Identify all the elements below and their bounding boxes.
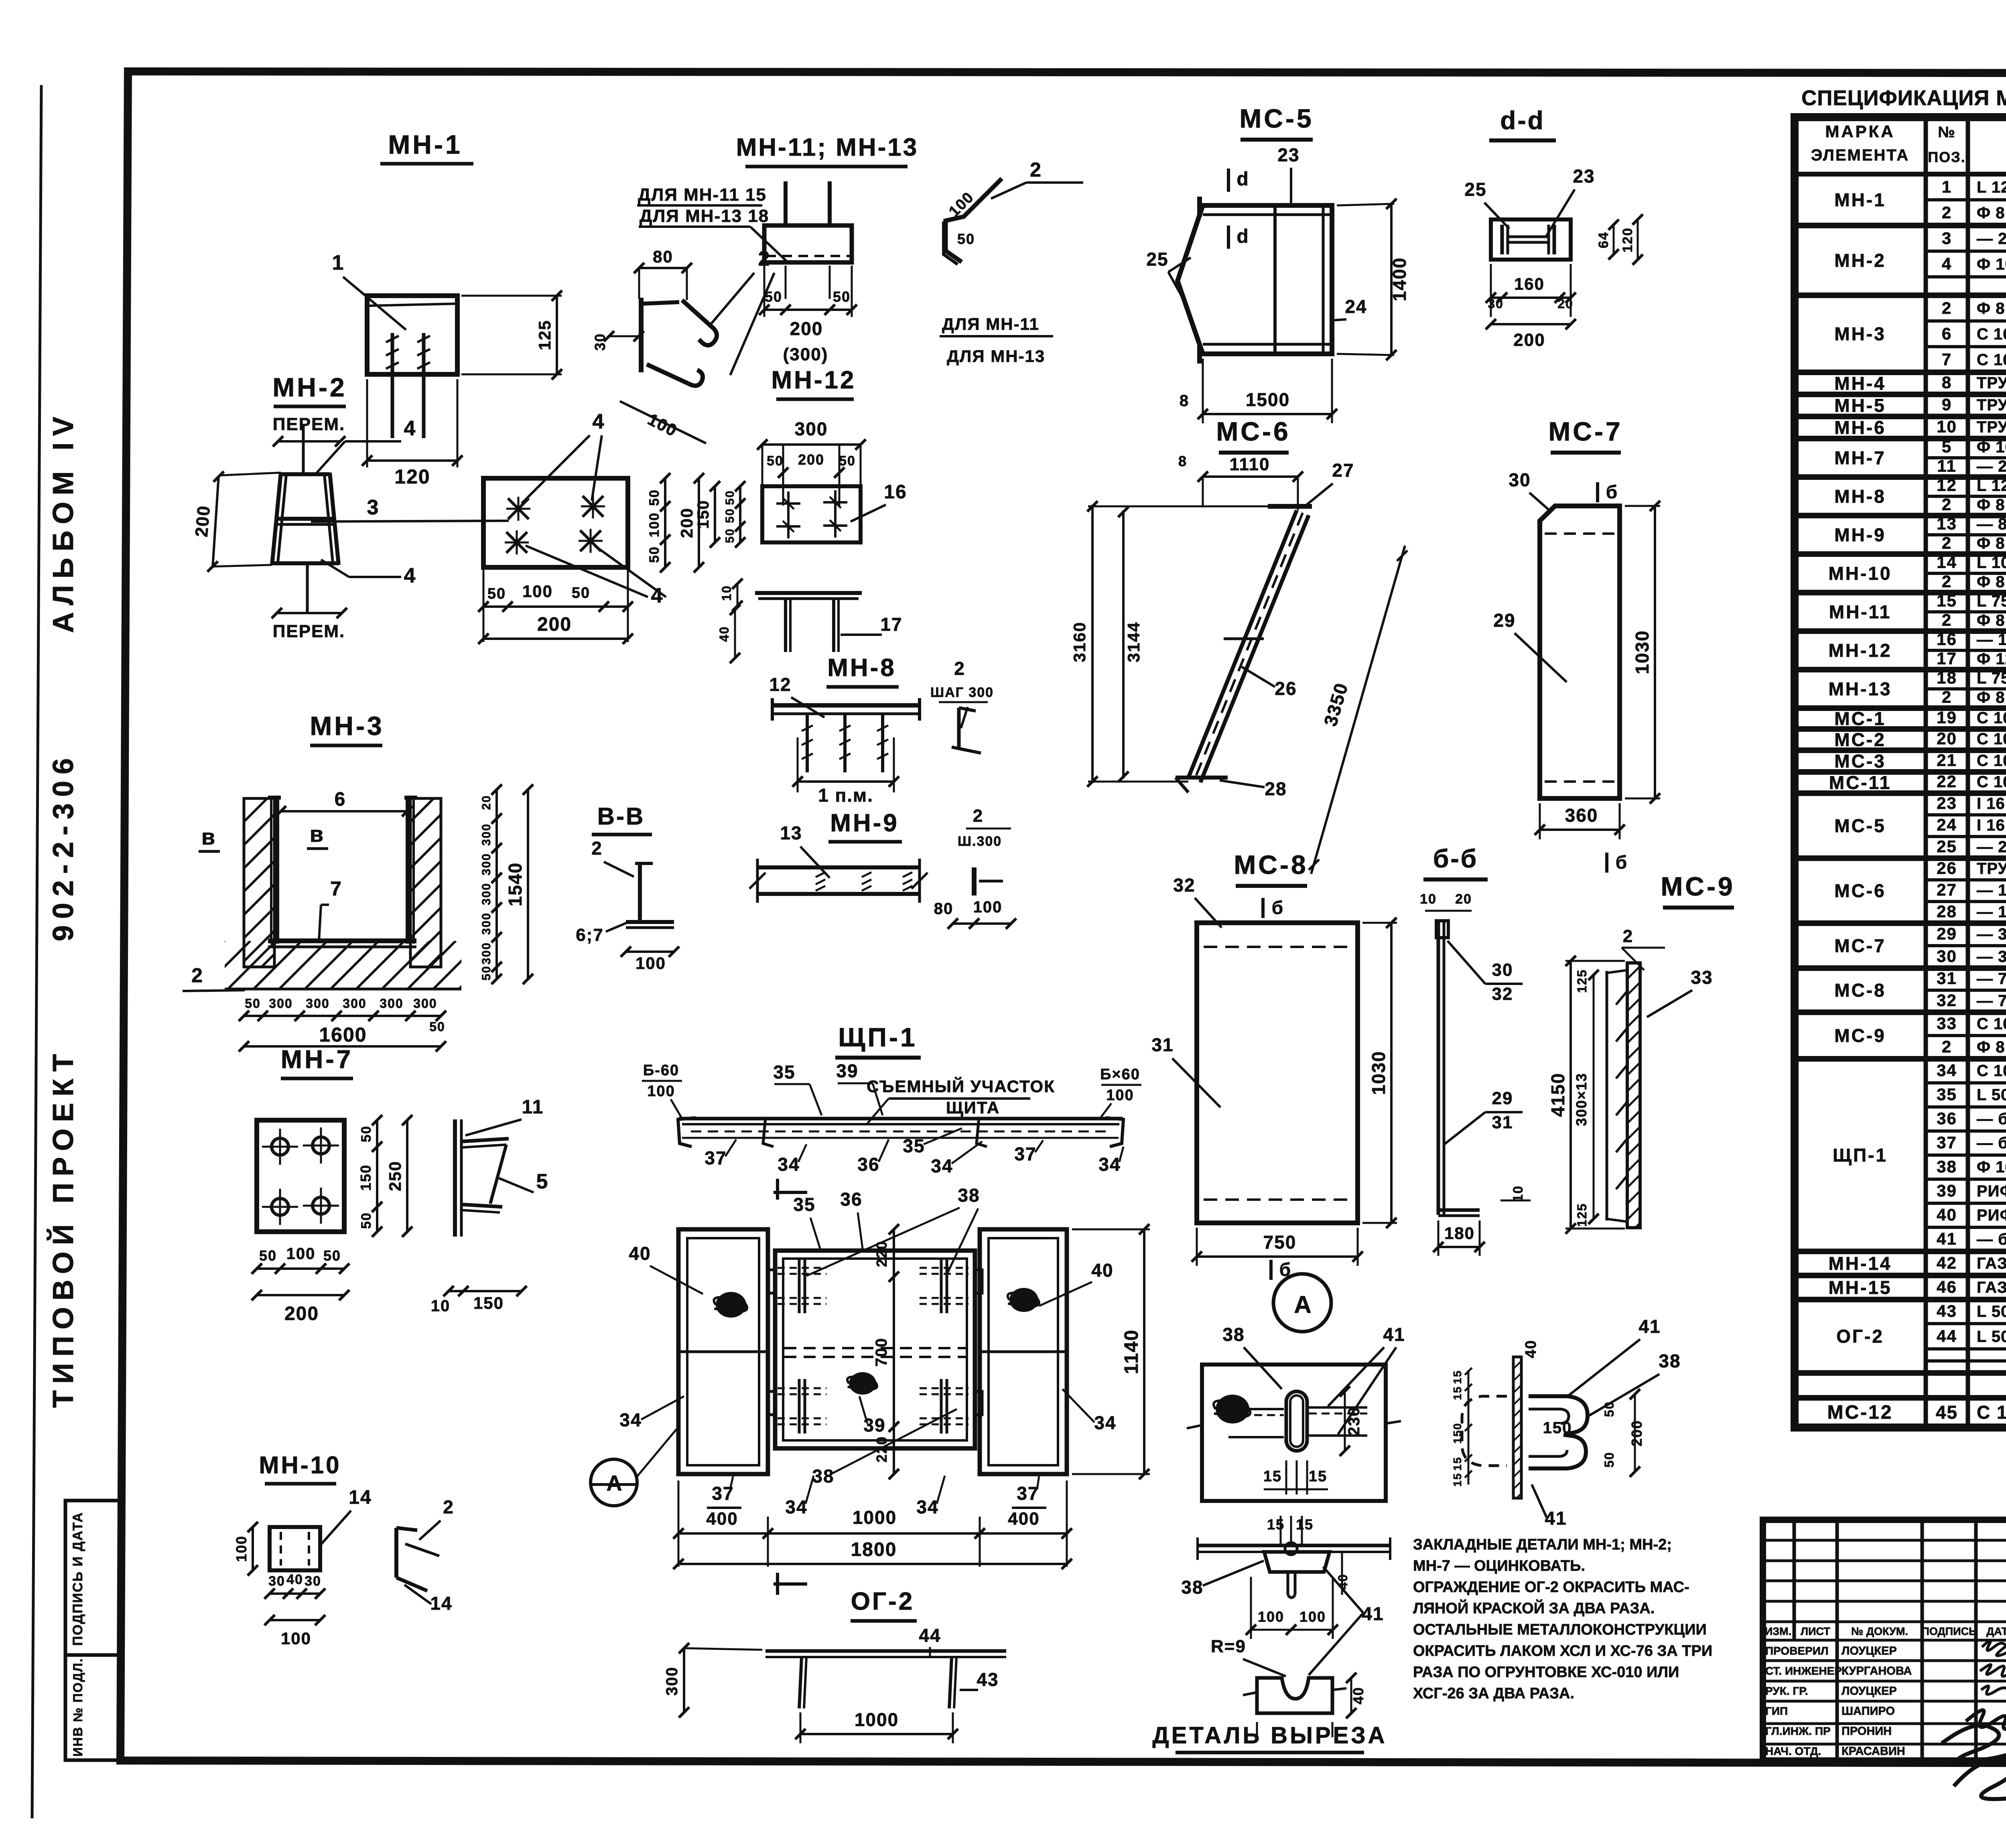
svg-text:ГАЗ.ТРУБА dу=25: ГАЗ.ТРУБА dу=25 xyxy=(1977,1255,2006,1272)
svg-text:13: 13 xyxy=(780,822,802,843)
svg-text:30: 30 xyxy=(268,1574,285,1589)
svg-text:50: 50 xyxy=(767,453,784,469)
svg-text:36: 36 xyxy=(857,1154,879,1175)
svg-text:4: 4 xyxy=(404,564,416,587)
svg-text:ПЕРЕМ.: ПЕРЕМ. xyxy=(273,621,345,641)
svg-text:37: 37 xyxy=(1017,1483,1039,1504)
figure МС-5 dim 1400 xyxy=(1337,204,1394,205)
svg-text:ЩИТА: ЩИТА xyxy=(946,1098,1000,1117)
figure МС-9 strip xyxy=(1606,971,1608,1220)
svg-text:50: 50 xyxy=(723,528,737,543)
svg-text:300: 300 xyxy=(413,996,437,1011)
svg-text:100: 100 xyxy=(286,1245,316,1263)
ЩП-1 section mark top xyxy=(774,1191,807,1194)
svg-text:4150: 4150 xyxy=(1547,1072,1568,1117)
figure МС-8 dim 750 xyxy=(1196,1228,1198,1266)
svg-text:23: 23 xyxy=(1573,166,1595,187)
svg-text:КУРГАНОВА: КУРГАНОВА xyxy=(1842,1665,1912,1677)
svg-text:29: 29 xyxy=(1493,610,1515,631)
svg-text:МН-3: МН-3 xyxy=(310,711,384,741)
svg-text:16: 16 xyxy=(884,481,907,503)
svg-text:100: 100 xyxy=(1299,1608,1326,1625)
svg-text:39: 39 xyxy=(863,1415,885,1436)
svg-text:33: 33 xyxy=(1937,1014,1957,1033)
detail А dim 230 xyxy=(1344,1391,1346,1451)
svg-text:100: 100 xyxy=(281,1629,311,1648)
figure МН-2 anchor plate xyxy=(483,478,628,567)
svg-text:ШАПИРО: ШАПИРО xyxy=(1842,1705,1895,1718)
svg-text:— 300 × 10: — 300 × 10 xyxy=(1977,925,2006,943)
svg-text:38: 38 xyxy=(812,1466,834,1487)
svg-text:100: 100 xyxy=(1106,1087,1134,1104)
figure МН-9 flat bar xyxy=(757,865,920,869)
ЩП-1 dim chain center vertical xyxy=(893,1229,895,1474)
svg-text:300: 300 xyxy=(795,418,828,439)
svg-text:1400: 1400 xyxy=(1389,257,1410,301)
svg-text:25: 25 xyxy=(1464,179,1486,200)
svg-text:L 75 × 8: L 75 × 8 xyxy=(1977,593,2006,610)
figure МН-7 side dims xyxy=(449,1290,522,1292)
svg-text:L 125 × 80 × 8: L 125 × 80 × 8 xyxy=(1977,179,2006,196)
svg-text:КРАСАВИН: КРАСАВИН xyxy=(1842,1745,1905,1758)
svg-text:МН-8: МН-8 xyxy=(1834,486,1886,507)
svg-text:— б = 8 × 60: — б = 8 × 60 xyxy=(1977,1134,2006,1152)
svg-text:11: 11 xyxy=(1937,457,1956,475)
svg-text:34: 34 xyxy=(619,1409,642,1430)
svg-text:50: 50 xyxy=(259,1247,277,1264)
svg-text:29: 29 xyxy=(1492,1088,1513,1108)
svg-text:МС-5: МС-5 xyxy=(1239,104,1314,133)
svg-text:1540: 1540 xyxy=(505,862,526,906)
svg-text:2: 2 xyxy=(591,838,603,859)
svg-text:360: 360 xyxy=(1565,805,1598,826)
svg-text:50: 50 xyxy=(359,1212,374,1229)
svg-text:ГИП: ГИП xyxy=(1765,1705,1788,1717)
svg-text:37: 37 xyxy=(705,1147,727,1168)
svg-text:1000: 1000 xyxy=(855,1709,899,1730)
svg-text:30: 30 xyxy=(592,333,608,351)
svg-text:6;7: 6;7 xyxy=(576,925,604,945)
svg-text:50: 50 xyxy=(323,1247,341,1264)
svg-text:ТРУБА dу=400: ТРУБА dу=400 xyxy=(1977,396,2006,414)
svg-text:700: 700 xyxy=(873,1338,890,1367)
svg-text:— 200 × 8: — 200 × 8 xyxy=(1977,838,2006,856)
svg-text:34: 34 xyxy=(785,1497,807,1517)
svg-text:2: 2 xyxy=(1942,534,1952,552)
svg-text:Ф 8 А I: Ф 8 А I xyxy=(1977,204,2006,222)
svg-text:СЪЕМНЫЙ УЧАСТОК: СЪЕМНЫЙ УЧАСТОК xyxy=(867,1076,1055,1096)
figure МН-12 edge view xyxy=(755,591,862,595)
figure МН-10 dims xyxy=(252,1527,254,1570)
figure ОГ-2 posts xyxy=(799,1657,802,1708)
svg-text:21: 21 xyxy=(1937,751,1957,770)
detail А edge marks xyxy=(1187,1425,1202,1428)
svg-text:МС-7: МС-7 xyxy=(1548,416,1622,446)
svg-text:120: 120 xyxy=(1620,227,1635,253)
svg-text:22: 22 xyxy=(1937,772,1957,791)
svg-text:3: 3 xyxy=(367,496,380,519)
figure МН-2 channel section xyxy=(272,473,281,565)
spec table column lines xyxy=(1924,174,1928,1428)
svg-text:МН-15: МН-15 xyxy=(1828,1277,1892,1298)
svg-text:19: 19 xyxy=(1937,708,1957,727)
ЩП-1 dim 1140 right xyxy=(1072,1229,1150,1231)
svg-text:31: 31 xyxy=(1937,969,1957,988)
svg-text:— 80 × 8: — 80 × 8 xyxy=(1977,516,2006,533)
svg-text:27: 27 xyxy=(1937,880,1957,899)
svg-text:34: 34 xyxy=(1098,1154,1121,1175)
ЩП-1 circle А left xyxy=(591,1459,637,1506)
svg-text:СТ. ИНЖЕНЕР: СТ. ИНЖЕНЕР xyxy=(1765,1665,1842,1677)
T-detail rail xyxy=(1198,1544,1390,1547)
svg-text:28: 28 xyxy=(1265,778,1287,799)
svg-text:38: 38 xyxy=(1659,1350,1681,1371)
svg-text:32: 32 xyxy=(1173,875,1195,896)
svg-text:3144: 3144 xyxy=(1124,621,1143,662)
figure МН-3 channel steel xyxy=(274,798,279,944)
svg-text:35: 35 xyxy=(1937,1085,1957,1104)
svg-text:б: б xyxy=(1606,481,1618,502)
svg-text:100: 100 xyxy=(636,954,666,973)
figure МС-6 mid tick xyxy=(1224,638,1264,640)
svg-text:50: 50 xyxy=(833,288,851,305)
svg-text:2: 2 xyxy=(973,806,983,826)
svg-text:41: 41 xyxy=(1545,1508,1567,1529)
svg-text:2: 2 xyxy=(1942,203,1952,222)
svg-text:Ф 12 А III: Ф 12 А III xyxy=(1977,650,2006,668)
figure МН-7 side view xyxy=(453,1119,457,1237)
svg-text:43: 43 xyxy=(977,1669,999,1690)
svg-text:МН-2: МН-2 xyxy=(1834,250,1886,271)
svg-text:50: 50 xyxy=(957,231,975,247)
cut detail dim 40 xyxy=(1350,1678,1352,1713)
figure ОГ-2 dim 300 xyxy=(683,1648,685,1712)
svg-text:20: 20 xyxy=(480,795,493,810)
svg-text:(300): (300) xyxy=(783,345,828,364)
svg-text:Ф 8 А I: Ф 8 А I xyxy=(1977,300,2006,317)
svg-text:МН-1: МН-1 xyxy=(1834,189,1886,210)
figure МС-7 section marks б xyxy=(1596,482,1599,502)
svg-text:220: 220 xyxy=(873,1436,890,1462)
svg-text:50: 50 xyxy=(480,965,493,980)
svg-text:100: 100 xyxy=(522,582,553,601)
svg-text:902-2-306: 902-2-306 xyxy=(47,752,79,941)
svg-text:Ф 8 А I: Ф 8 А I xyxy=(1977,689,2006,707)
ЩП-1 section mark bottom xyxy=(774,1582,807,1586)
svg-text:ЛЯНОЙ КРАСКОЙ ЗА ДВА РАЗА.: ЛЯНОЙ КРАСКОЙ ЗА ДВА РАЗА. xyxy=(1413,1599,1655,1617)
figure МН-12 edge dims xyxy=(737,584,739,606)
figure МН-1 side dim 100 xyxy=(620,401,706,443)
cut detail bottom line xyxy=(1256,1722,1258,1737)
svg-text:АЛЬБОМ IV: АЛЬБОМ IV xyxy=(47,410,79,633)
figure б-б angle xyxy=(1437,920,1440,1215)
svg-text:15: 15 xyxy=(1451,1456,1464,1470)
svg-text:8: 8 xyxy=(1178,453,1187,469)
svg-text:МН-6: МН-6 xyxy=(1834,417,1886,438)
svg-text:МС-9: МС-9 xyxy=(1661,871,1735,901)
svg-text:С 10: С 10 xyxy=(1977,752,2006,770)
svg-text:41: 41 xyxy=(1362,1603,1384,1624)
svg-text:38: 38 xyxy=(1222,1324,1245,1345)
figure В-В dim 100 xyxy=(626,950,674,953)
svg-text:28: 28 xyxy=(1937,902,1957,921)
svg-text:Ф 10 А III: Ф 10 А III xyxy=(1977,439,2006,456)
svg-text:150: 150 xyxy=(694,500,712,529)
figure В-В angle section xyxy=(638,863,642,922)
svg-text:32: 32 xyxy=(1937,991,1957,1010)
C-clip detail upper hook xyxy=(1529,1396,1588,1434)
cut detail shape xyxy=(1257,1678,1332,1713)
figure МН-11 dims below xyxy=(763,266,765,317)
figure МН-1 side dim 30 xyxy=(609,335,639,337)
svg-text:50: 50 xyxy=(839,453,856,469)
svg-text:300: 300 xyxy=(480,823,493,846)
detail А plate xyxy=(1202,1365,1386,1501)
svg-text:50: 50 xyxy=(245,996,261,1011)
svg-text:СПЕЦИФИКАЦИЯ МЕТАЛЛА НА ОДНУ: СПЕЦИФИКАЦИЯ МЕТАЛЛА НА ОДНУ МАРКУ xyxy=(1801,86,2006,110)
svg-text:МС-7: МС-7 xyxy=(1834,935,1886,956)
svg-text:— 750 × 20: — 750 × 20 xyxy=(1977,992,2006,1010)
svg-text:ПЕРЕМ.: ПЕРЕМ. xyxy=(273,414,345,434)
svg-text:I 16: I 16 xyxy=(1977,816,2005,834)
svg-text:30: 30 xyxy=(1488,296,1504,311)
svg-text:С 10: С 10 xyxy=(1977,709,2006,727)
svg-text:1110: 1110 xyxy=(1229,455,1270,474)
svg-text:46: 46 xyxy=(1937,1277,1957,1296)
svg-text:С 10: С 10 xyxy=(1977,1062,2006,1080)
figure МН-12 plate xyxy=(762,486,861,542)
figure МН-1 plate xyxy=(367,296,457,374)
svg-text:МН-9: МН-9 xyxy=(830,809,899,837)
svg-text:38: 38 xyxy=(1937,1157,1957,1176)
svg-text:125: 125 xyxy=(1575,969,1589,993)
svg-text:Ф 8 А I: Ф 8 А I xyxy=(1977,535,2006,552)
svg-text:80: 80 xyxy=(934,900,954,918)
svg-text:200: 200 xyxy=(1513,330,1545,350)
svg-text:40: 40 xyxy=(1523,1340,1539,1358)
svg-text:А: А xyxy=(1294,1291,1312,1318)
svg-text:15: 15 xyxy=(1937,591,1957,610)
svg-text:30: 30 xyxy=(1492,960,1513,980)
T-detail dims bottom xyxy=(1250,1577,1252,1639)
svg-text:— 200 × 10: — 200 × 10 xyxy=(1977,458,2006,475)
svg-text:I 16: I 16 xyxy=(1977,795,2005,812)
svg-text:34: 34 xyxy=(1937,1061,1957,1080)
title block left grid xyxy=(1793,1520,1796,1640)
figure МН-8 anchors xyxy=(806,714,809,772)
svg-text:300: 300 xyxy=(480,912,493,935)
svg-text:14: 14 xyxy=(1937,553,1957,572)
svg-text:ЩП-1: ЩП-1 xyxy=(838,1022,917,1052)
svg-text:34: 34 xyxy=(931,1156,953,1176)
svg-text:50: 50 xyxy=(765,288,782,305)
figure МН-7 dims bottom xyxy=(257,1267,344,1270)
svg-text:2: 2 xyxy=(1623,926,1633,946)
figure МН-9 weld marks xyxy=(816,872,825,877)
svg-text:300: 300 xyxy=(480,942,493,965)
svg-text:10: 10 xyxy=(431,1297,451,1315)
svg-text:50: 50 xyxy=(359,1125,374,1142)
svg-text:36: 36 xyxy=(1937,1109,1957,1128)
figure МС-6 slanted member xyxy=(1188,510,1297,778)
svg-text:150: 150 xyxy=(357,1164,374,1191)
figure МС-9 side hooks xyxy=(1616,991,1627,1005)
ЩП-1 panel assembly center panel xyxy=(775,1251,975,1448)
svg-text:d-d: d-d xyxy=(1500,106,1545,135)
svg-text:МС-6: МС-6 xyxy=(1216,416,1290,446)
svg-text:24: 24 xyxy=(1937,815,1957,834)
figure МС-7 plate xyxy=(1540,506,1620,798)
svg-text:ДЛЯ МН-11: ДЛЯ МН-11 xyxy=(942,315,1040,333)
svg-text:300: 300 xyxy=(663,1667,681,1696)
figure МС-8 dim 1030 xyxy=(1362,922,1397,924)
T-detail block xyxy=(1264,1552,1330,1572)
svg-text:6: 6 xyxy=(1942,324,1952,343)
svg-text:10: 10 xyxy=(1420,892,1437,907)
svg-text:50: 50 xyxy=(723,508,737,523)
svg-text:ХСГ-26 ЗА ДВА РАЗА.: ХСГ-26 ЗА ДВА РАЗА. xyxy=(1413,1685,1574,1702)
svg-text:10: 10 xyxy=(1937,417,1957,436)
figure МН-1 dim 125 xyxy=(461,295,562,297)
svg-text:С 10: С 10 xyxy=(1977,730,2006,748)
svg-text:3: 3 xyxy=(1942,229,1952,248)
figure МН-12 dims left xyxy=(739,486,741,542)
figure МН-2 burst marks xyxy=(508,498,529,519)
svg-text:РУК. ГР.: РУК. ГР. xyxy=(1765,1685,1808,1697)
svg-text:В-В: В-В xyxy=(597,803,645,830)
svg-text:200: 200 xyxy=(677,508,696,538)
svg-text:МН-12: МН-12 xyxy=(1828,640,1892,661)
figure МН-12 cross marks xyxy=(787,491,790,516)
svg-text:200: 200 xyxy=(284,1303,319,1324)
svg-text:27: 27 xyxy=(1332,460,1354,481)
svg-text:7: 7 xyxy=(1942,350,1952,369)
svg-text:4: 4 xyxy=(593,410,605,433)
svg-text:в: в xyxy=(310,821,324,847)
svg-text:ОГ-2: ОГ-2 xyxy=(851,1588,915,1615)
figure МН-11 bent bar side xyxy=(946,179,1002,262)
title block outer xyxy=(1763,1520,2006,1761)
svg-text:1: 1 xyxy=(332,251,345,274)
svg-text:С 16: С 16 xyxy=(1977,351,2006,369)
svg-text:МН-2: МН-2 xyxy=(272,372,347,402)
figure МС-5 dim 1500 bottom xyxy=(1202,359,1204,423)
svg-text:МС-3: МС-3 xyxy=(1834,751,1886,772)
figure МН-1 dim 120 xyxy=(366,379,368,467)
svg-text:43: 43 xyxy=(1937,1302,1957,1320)
svg-text:35: 35 xyxy=(773,1062,795,1082)
figure МН-10 side angle xyxy=(394,1528,398,1578)
svg-text:18: 18 xyxy=(1937,668,1957,687)
svg-text:РАЗА ПО ОГРУНТОВКЕ ХС-010 ИЛИ: РАЗА ПО ОГРУНТОВКЕ ХС-010 ИЛИ xyxy=(1413,1664,1679,1681)
svg-text:ОГ-2: ОГ-2 xyxy=(1836,1326,1884,1347)
figure МС-6 dim 3350 slanted xyxy=(1311,546,1405,874)
figure ОГ-2 rail xyxy=(765,1649,1006,1653)
svg-text:ДЕТАЛЬ ВЫРЕЗА: ДЕТАЛЬ ВЫРЕЗА xyxy=(1152,1722,1387,1748)
svg-text:2: 2 xyxy=(1942,572,1952,591)
svg-text:23: 23 xyxy=(1937,794,1957,812)
svg-text:ИНВ № ПОДЛ.: ИНВ № ПОДЛ. xyxy=(71,1658,85,1757)
svg-text:Ф 8 А I: Ф 8 А I xyxy=(1977,496,2006,514)
svg-text:Б-60: Б-60 xyxy=(643,1062,679,1079)
svg-text:МС-6: МС-6 xyxy=(1834,880,1886,901)
svg-text:33: 33 xyxy=(1691,967,1713,988)
C-clip detail lower hook xyxy=(1529,1435,1586,1468)
svg-text:15: 15 xyxy=(1451,1370,1464,1384)
svg-text:б: б xyxy=(1272,897,1284,918)
svg-text:30: 30 xyxy=(1509,469,1531,490)
figure МН-7 dims right xyxy=(376,1120,378,1232)
svg-text:МС-8: МС-8 xyxy=(1234,850,1308,879)
svg-text:300: 300 xyxy=(343,996,366,1011)
svg-text:400: 400 xyxy=(706,1509,738,1529)
svg-text:3160: 3160 xyxy=(1070,621,1089,662)
svg-text:100: 100 xyxy=(647,512,662,538)
svg-text:ТРУБА dу=400: ТРУБА dу=400 xyxy=(1977,374,2006,392)
figure d-d dims right xyxy=(1613,225,1615,254)
figure МН-11 anchor rods up xyxy=(784,181,788,225)
spec table МС-12 row xyxy=(1926,198,2006,201)
svg-text:5: 5 xyxy=(536,1170,549,1193)
svg-text:7: 7 xyxy=(330,877,342,900)
C-clip dims left small xyxy=(1468,1370,1470,1484)
svg-text:МН-3: МН-3 xyxy=(1834,323,1886,344)
svg-text:ОГРАЖДЕНИЕ ОГ-2 ОКРАСИТЬ МАС-: ОГРАЖДЕНИЕ ОГ-2 ОКРАСИТЬ МАС- xyxy=(1413,1579,1689,1596)
svg-text:300: 300 xyxy=(480,853,493,875)
svg-text:С 10: С 10 xyxy=(1977,773,2006,791)
svg-text:МН-8: МН-8 xyxy=(827,654,896,682)
svg-text:1030: 1030 xyxy=(1368,1051,1389,1095)
svg-text:31: 31 xyxy=(1151,1034,1174,1055)
svg-text:400: 400 xyxy=(1008,1509,1040,1529)
svg-text:ТИПОВОЙ ПРОЕКТ: ТИПОВОЙ ПРОЕКТ xyxy=(47,1048,79,1408)
svg-text:4: 4 xyxy=(1942,254,1952,273)
svg-text:1000: 1000 xyxy=(853,1507,897,1528)
svg-text:Ф 16 А I: Ф 16 А I xyxy=(1977,1158,2006,1176)
svg-text:ГЛ.ИНЖ. ПР: ГЛ.ИНЖ. ПР xyxy=(1765,1725,1831,1737)
svg-text:20: 20 xyxy=(1937,729,1957,748)
svg-text:180: 180 xyxy=(1444,1224,1475,1243)
svg-text:150: 150 xyxy=(473,1294,504,1312)
svg-text:50: 50 xyxy=(1602,1401,1616,1417)
figure МН-10 plate xyxy=(270,1527,320,1570)
svg-text:С 10: С 10 xyxy=(1977,1402,2006,1423)
svg-text:Ф 8 А I: Ф 8 А I xyxy=(1977,612,2006,630)
svg-text:Ф 8 А I: Ф 8 А I xyxy=(1977,573,2006,591)
svg-text:МН-1: МН-1 xyxy=(388,130,462,159)
svg-text:— 360 × 20: — 360 × 20 xyxy=(1977,948,2006,965)
svg-text:МН-7 — ОЦИНКОВАТЬ.: МН-7 — ОЦИНКОВАТЬ. xyxy=(1413,1558,1585,1574)
figure МС-6 dim 1110 top xyxy=(1203,475,1298,478)
svg-text:150: 150 xyxy=(1451,1423,1464,1444)
svg-text:20: 20 xyxy=(1557,296,1574,311)
ЩП-1 junction plates xyxy=(768,1270,775,1293)
svg-text:ШАГ 300: ШАГ 300 xyxy=(930,685,994,700)
figure МС-5 d section marks xyxy=(1227,169,1230,192)
svg-text:41: 41 xyxy=(1383,1324,1405,1345)
svg-text:30: 30 xyxy=(1937,946,1957,965)
svg-text:— 200 × 10: — 200 × 10 xyxy=(1977,230,2006,248)
svg-text:ПРОНИН: ПРОНИН xyxy=(1842,1725,1892,1738)
svg-text:L 100 × 63 × 6: L 100 × 63 × 6 xyxy=(1977,554,2006,572)
svg-text:5: 5 xyxy=(1942,437,1952,456)
figure МН-3 dims bottom xyxy=(244,1015,441,1017)
svg-text:34: 34 xyxy=(916,1497,938,1517)
svg-text:24: 24 xyxy=(1345,296,1367,317)
svg-text:Ф 8 А I: Ф 8 А I xyxy=(1977,1038,2006,1056)
svg-text:МН-4: МН-4 xyxy=(1834,373,1886,394)
svg-text:ДЛЯ МН-13 18: ДЛЯ МН-13 18 xyxy=(640,206,769,226)
